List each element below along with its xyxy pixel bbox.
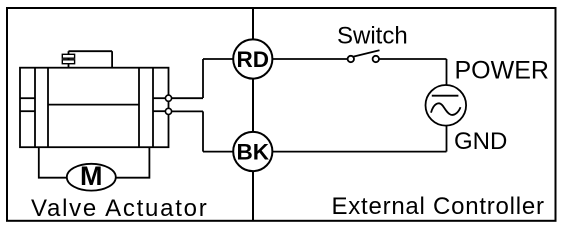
svg-text:POWER: POWER	[455, 57, 549, 85]
wire RD left horizontal	[203, 58, 233, 60]
body left cap line	[34, 68, 36, 148]
AC source top bar	[432, 95, 459, 97]
svg-text:BK: BK	[237, 140, 270, 165]
wire bottom terminal horizontal	[172, 110, 203, 112]
wire gnd horizontal to BK	[272, 151, 446, 153]
motor left wire	[39, 147, 67, 178]
body right cap line	[152, 68, 154, 148]
wire BK feed vertical	[202, 111, 204, 151]
svg-text:RD: RD	[237, 47, 270, 72]
valve actuator body outline	[20, 68, 169, 148]
top fitting top wire	[69, 50, 113, 52]
svg-text:Valve Actuator: Valve Actuator	[31, 195, 208, 222]
svg-text:M: M	[80, 161, 103, 191]
top fitting plate upper	[62, 54, 74, 58]
svg-text:External Controller: External Controller	[332, 193, 545, 220]
AC source	[426, 85, 467, 126]
wire source bottom drop	[446, 126, 448, 152]
top fitting plate lower	[62, 60, 74, 64]
body left inner line	[47, 68, 49, 148]
wire top terminal horizontal	[172, 97, 203, 99]
AC source sine wave	[431, 103, 461, 115]
motor M1	[67, 164, 116, 191]
node RD	[233, 39, 272, 78]
right cap divider lower	[153, 110, 169, 112]
wire BK left horizontal	[203, 151, 233, 153]
terminal top	[165, 95, 171, 101]
left cap divider upper	[20, 97, 35, 99]
wire switch to power corner	[379, 58, 447, 60]
switch left contact	[348, 56, 354, 62]
svg-text:Switch: Switch	[337, 23, 408, 50]
node BK	[233, 132, 272, 171]
wire RD to switch	[272, 58, 347, 60]
body middle line	[48, 104, 139, 106]
body right inner line	[138, 68, 140, 148]
left cap divider lower	[20, 110, 35, 112]
divider wire (zone split through RD and BK)	[252, 9, 254, 220]
motor right wire	[116, 147, 150, 178]
wire RD drop vertical	[202, 59, 204, 98]
terminal bottom	[165, 108, 171, 114]
switch right contact	[373, 56, 379, 62]
wire power corner drop	[446, 59, 448, 86]
svg-text:GND: GND	[454, 128, 507, 155]
switch lever	[353, 50, 379, 56]
right cap divider upper	[153, 97, 169, 99]
top fitting stem	[68, 51, 70, 67]
top fitting right drop	[111, 51, 113, 67]
